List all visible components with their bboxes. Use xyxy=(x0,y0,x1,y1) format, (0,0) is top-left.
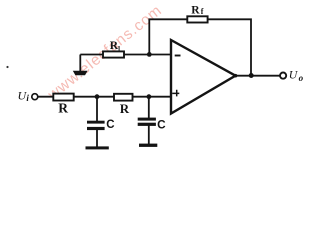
svg-text:C: C xyxy=(106,119,114,131)
svg-text:U: U xyxy=(289,68,299,82)
svg-text:i: i xyxy=(26,93,29,103)
svg-text:R: R xyxy=(120,101,130,116)
svg-text:o: o xyxy=(299,73,304,83)
svg-text:C: C xyxy=(157,118,166,132)
svg-text:R: R xyxy=(191,4,200,16)
svg-text:1: 1 xyxy=(117,45,121,53)
svg-text:R: R xyxy=(58,101,68,116)
svg-text:f: f xyxy=(201,7,204,16)
